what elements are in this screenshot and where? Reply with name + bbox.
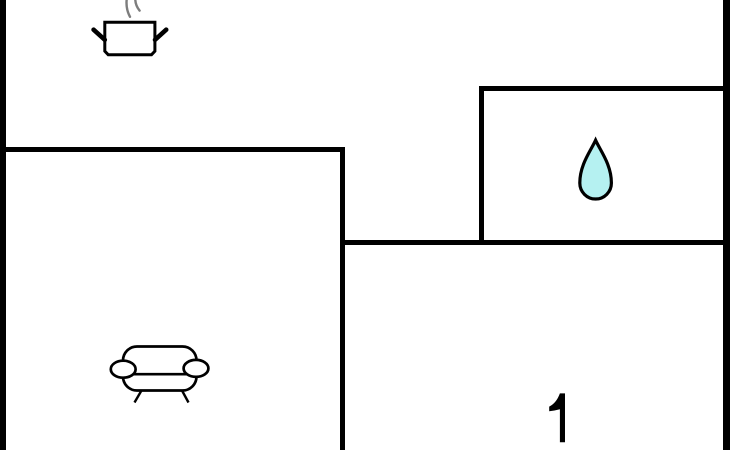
wall middle vertical [340, 147, 345, 450]
wall bathroom left (vertical) [479, 86, 484, 245]
sofa left leg [135, 391, 142, 403]
cooking pot right handle [155, 30, 166, 40]
wall bathroom top (horizontal) [479, 86, 730, 91]
wall right (exterior) [723, 0, 730, 450]
water drop (bathroom) [580, 140, 612, 199]
cooking pot left handle [94, 30, 105, 40]
sofa seat line [132, 373, 187, 376]
room label 1 (bedroom) [549, 393, 565, 442]
cooking pot body [105, 22, 155, 55]
sofa body (living room) [123, 347, 197, 391]
wall bedroom top (horizontal) [340, 240, 730, 245]
sofa right leg [182, 391, 189, 403]
sofa right armrest [184, 360, 209, 377]
steam line 2 (kitchen) [135, 0, 139, 11]
wall living-room top (horizontal) [0, 147, 345, 152]
sofa left armrest [111, 361, 136, 378]
steam line 1 (kitchen) [127, 0, 130, 17]
wall left (exterior) [0, 0, 6, 450]
